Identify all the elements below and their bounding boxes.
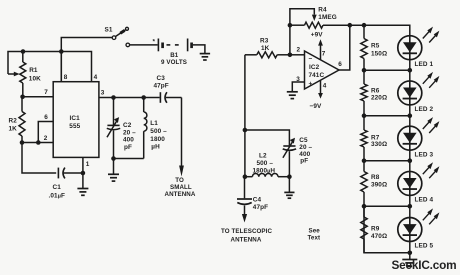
node R3/pin2 junction xyxy=(288,53,293,58)
svg-text:See: See xyxy=(309,227,321,234)
svg-text:L2: L2 xyxy=(259,153,267,160)
resistor R2 xyxy=(21,97,23,112)
svg-text:R8: R8 xyxy=(371,174,380,181)
svg-text:7: 7 xyxy=(44,89,48,96)
svg-text:1: 1 xyxy=(86,161,90,168)
pin 4 supply arrow -9V xyxy=(320,80,322,94)
svg-text:500 –: 500 – xyxy=(257,160,274,167)
svg-text:R9: R9 xyxy=(371,226,380,233)
svg-text:1800: 1800 xyxy=(150,136,165,143)
svg-text:SMALL: SMALL xyxy=(170,184,192,191)
LED 2 diode xyxy=(398,81,422,105)
node L2 left xyxy=(243,174,248,179)
tank tee node xyxy=(243,128,248,133)
svg-text:C3: C3 xyxy=(157,75,166,82)
svg-text:6: 6 xyxy=(338,61,342,68)
node R5 top xyxy=(362,23,367,28)
svg-text:R5: R5 xyxy=(371,43,380,50)
wire rail 3 xyxy=(364,115,410,117)
wire pin 3 row xyxy=(99,97,160,99)
svg-text:3: 3 xyxy=(296,76,300,83)
node C2 top xyxy=(111,95,116,100)
svg-text:6: 6 xyxy=(44,114,48,121)
svg-text:S1: S1 xyxy=(105,27,113,34)
node pin6 branch junction xyxy=(36,140,41,145)
svg-text:1K: 1K xyxy=(261,45,270,52)
node pin7 junction xyxy=(20,95,25,100)
svg-text:500 –: 500 – xyxy=(150,128,167,135)
svg-text:R2: R2 xyxy=(9,118,18,125)
svg-text:4: 4 xyxy=(94,74,98,81)
capacitor C1 xyxy=(57,168,59,179)
svg-text:µH: µH xyxy=(151,144,160,151)
inductor L2 xyxy=(245,176,253,178)
svg-text:−: − xyxy=(309,56,313,63)
svg-text:9 VOLTS: 9 VOLTS xyxy=(161,59,187,66)
wire pin 1 xyxy=(82,157,84,173)
svg-text:7: 7 xyxy=(322,51,326,58)
wire C1 row xyxy=(22,143,56,174)
wire R3 down to tank xyxy=(244,55,246,130)
op IC1 555 box xyxy=(53,82,99,158)
svg-text:TO: TO xyxy=(175,177,184,184)
wire C2-L1 bottom xyxy=(114,158,144,160)
wire S1 riser from pin8 node xyxy=(61,38,112,82)
wire S1 to battery xyxy=(130,44,158,46)
resistor R9 xyxy=(363,206,365,217)
svg-text:2: 2 xyxy=(44,135,48,142)
wire pin 2 row xyxy=(22,142,53,144)
svg-text:150Ω: 150Ω xyxy=(371,51,387,58)
ground below C2 xyxy=(113,159,115,175)
node C2 bottom xyxy=(111,156,116,161)
svg-text:+9V: +9V xyxy=(311,32,323,39)
svg-text:220Ω: 220Ω xyxy=(371,95,387,102)
LED 5 diode xyxy=(398,218,422,242)
node L2 right xyxy=(287,174,292,179)
svg-text:R6: R6 xyxy=(371,88,380,95)
svg-text:4: 4 xyxy=(323,83,327,90)
svg-text:LED 3: LED 3 xyxy=(415,151,434,158)
node R4 left junction xyxy=(288,23,293,28)
ground battery xyxy=(200,53,210,55)
svg-text:3: 3 xyxy=(101,90,105,97)
svg-text:Text: Text xyxy=(308,235,321,242)
wire output pin 6 xyxy=(339,25,350,70)
wire tee to C5 xyxy=(245,130,290,145)
antenna arrow telescopic xyxy=(242,214,247,223)
svg-text:400: 400 xyxy=(123,137,134,144)
wire pin 6 loop xyxy=(38,122,53,143)
svg-text:−9V: −9V xyxy=(310,103,322,110)
resistor R1 (potentiometer) xyxy=(22,52,24,63)
ground pin3 xyxy=(287,91,298,93)
resistor R7 xyxy=(363,116,365,130)
pin 7 supply arrow +9V xyxy=(320,45,322,60)
svg-text:470Ω: 470Ω xyxy=(371,233,387,240)
ground bottom LED chain xyxy=(409,253,411,259)
wire rail 5 xyxy=(364,205,410,207)
svg-text:47pF: 47pF xyxy=(253,204,268,211)
svg-text:LED 5: LED 5 xyxy=(415,243,434,250)
svg-text:1800µH: 1800µH xyxy=(253,167,276,174)
svg-text:ANTENNA: ANTENNA xyxy=(231,236,262,243)
wire tank left drop xyxy=(244,130,246,177)
capacitor C4 xyxy=(244,177,246,199)
node pin1 junction xyxy=(81,171,86,176)
node pin2 row left junction xyxy=(20,140,25,145)
wire R4 wiper loop xyxy=(290,9,314,25)
wire pin 7 xyxy=(23,96,54,98)
svg-text:8: 8 xyxy=(64,74,68,81)
node output/rail junction xyxy=(348,23,353,28)
svg-text:.01µF: .01µF xyxy=(49,193,65,200)
svg-text:C1: C1 xyxy=(53,184,62,191)
LED 1 diode xyxy=(398,36,422,60)
node L1 top xyxy=(141,95,146,100)
svg-text:TO TELESCOPIC: TO TELESCOPIC xyxy=(221,228,272,235)
svg-text:L1: L1 xyxy=(150,120,158,127)
resistor R6 xyxy=(363,70,365,84)
ground below pin1 xyxy=(82,173,84,188)
resistor R5 xyxy=(363,25,365,38)
svg-text:R3: R3 xyxy=(260,38,269,45)
svg-text:C2: C2 xyxy=(123,122,132,129)
svg-text:B1: B1 xyxy=(170,52,179,59)
wire rail 1 xyxy=(350,25,410,70)
wire bottom rail xyxy=(364,206,410,253)
antenna arrow small xyxy=(179,166,184,177)
wire rail 4 xyxy=(364,160,410,162)
svg-text:+: + xyxy=(309,81,313,88)
capacitor C3 xyxy=(159,92,161,103)
svg-text:20 –: 20 – xyxy=(123,129,136,136)
svg-text:pF: pF xyxy=(300,158,308,165)
wire rail 2 xyxy=(364,69,410,71)
svg-text:10K: 10K xyxy=(29,76,41,83)
svg-text:pF: pF xyxy=(124,144,132,151)
LED 3 diode xyxy=(398,126,422,150)
svg-text:555: 555 xyxy=(69,123,80,130)
wire top rail (R1 top / pins 8,4 supply) xyxy=(8,52,92,82)
svg-text:IC2: IC2 xyxy=(309,64,320,71)
svg-text:390Ω: 390Ω xyxy=(371,182,387,189)
svg-text:2: 2 xyxy=(297,47,301,54)
capacitor C2 variable xyxy=(113,98,115,125)
svg-text:R4: R4 xyxy=(318,6,327,13)
op-amp U2 IC2 741C xyxy=(305,51,340,89)
svg-text:SeekIC.com: SeekIC.com xyxy=(392,258,457,272)
resistor R8 xyxy=(363,161,365,172)
svg-text:1MEG: 1MEG xyxy=(318,14,337,21)
wire pin 3 to ground xyxy=(292,82,304,92)
svg-text:C4: C4 xyxy=(253,196,262,203)
ground L2 xyxy=(288,177,290,193)
svg-text:LED 4: LED 4 xyxy=(415,197,434,204)
resistor R4 (pot) xyxy=(290,24,305,26)
node pin8 junction xyxy=(59,49,64,54)
svg-text:IC1: IC1 xyxy=(70,115,81,122)
svg-text:R1: R1 xyxy=(29,67,38,74)
svg-text:LED 2: LED 2 xyxy=(415,106,434,113)
node R1 top junction xyxy=(21,49,26,54)
svg-text:1K: 1K xyxy=(9,126,18,133)
pin 8 lead xyxy=(60,52,62,82)
inductor L1 xyxy=(143,98,145,113)
svg-text:741C: 741C xyxy=(309,72,325,79)
svg-text:47pF: 47pF xyxy=(154,83,169,90)
svg-text:330Ω: 330Ω xyxy=(371,141,387,148)
wire antenna drop xyxy=(181,98,183,166)
wire C4 antenna stem xyxy=(244,206,246,215)
capacitor C5 variable xyxy=(283,145,295,147)
svg-text:ANTENNA: ANTENNA xyxy=(165,191,196,198)
wire battery to ground xyxy=(193,45,205,54)
wire pin 2 xyxy=(290,54,305,56)
svg-text:LED 1: LED 1 xyxy=(415,61,434,68)
wire feedback riser xyxy=(289,25,291,55)
LED 4 diode xyxy=(398,171,422,195)
resistor R3 xyxy=(245,54,257,56)
svg-text:20 –: 20 – xyxy=(299,144,312,151)
svg-text:*: * xyxy=(153,39,156,46)
